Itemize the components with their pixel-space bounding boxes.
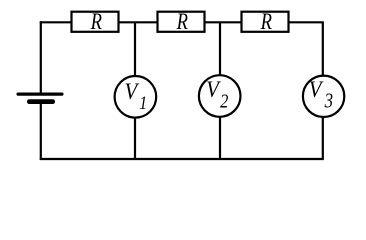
svg-text:R: R bbox=[176, 8, 188, 34]
wire left vertical (battery bottom lead) bbox=[40, 104, 42, 160]
wire top horizontal bus bbox=[40, 21, 324, 23]
resistor R1 body bbox=[72, 12, 119, 32]
wire bottom horizontal bus bbox=[40, 158, 324, 160]
svg-text:2: 2 bbox=[220, 90, 228, 113]
label R3 value R bbox=[260, 8, 272, 34]
resistor R3 body bbox=[242, 12, 289, 32]
wire junction A drop to voltmeter V1 bbox=[134, 22, 136, 76]
label R1 value R bbox=[90, 8, 102, 34]
wire left vertical (battery top lead) bbox=[40, 21, 42, 92]
battery E short plate bbox=[27, 99, 55, 104]
svg-text:R: R bbox=[90, 8, 102, 34]
voltmeter V1 circle bbox=[115, 76, 157, 118]
resistor R2 body bbox=[158, 12, 205, 32]
wire V3 bottom lead bbox=[322, 117, 324, 160]
label voltmeter V1 subscript 1 bbox=[139, 93, 147, 113]
wire V1 bottom lead bbox=[134, 117, 136, 159]
svg-text:1: 1 bbox=[139, 93, 147, 113]
label voltmeter V2 letter V bbox=[206, 76, 221, 102]
svg-text:3: 3 bbox=[324, 90, 333, 113]
label voltmeter V3 subscript 3 bbox=[324, 90, 333, 113]
voltmeter V3 circle bbox=[303, 76, 344, 117]
svg-text:R: R bbox=[260, 8, 272, 34]
label voltmeter V1 letter V bbox=[125, 78, 140, 104]
battery E long plate bbox=[17, 93, 64, 96]
wire right vertical to voltmeter V3 bbox=[322, 22, 324, 76]
wire V2 bottom lead bbox=[219, 117, 221, 160]
label voltmeter V2 subscript 2 bbox=[220, 90, 228, 113]
voltmeter V2 circle bbox=[199, 75, 241, 117]
label voltmeter V3 letter V bbox=[309, 76, 324, 102]
wire junction B drop to voltmeter V2 bbox=[219, 22, 221, 75]
label R2 value R bbox=[176, 8, 188, 34]
